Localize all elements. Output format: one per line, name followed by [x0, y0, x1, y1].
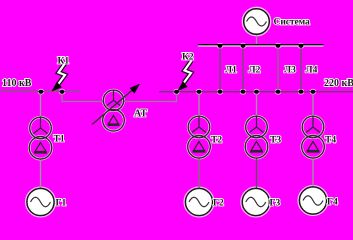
- svg-text:Т3: Т3: [270, 136, 281, 146]
- svg-text:Л4: Л4: [306, 66, 318, 76]
- svg-text:Система: Система: [274, 16, 311, 27]
- svg-text:220 кВ: 220 кВ: [324, 78, 353, 89]
- svg-text:К1: К1: [58, 57, 70, 67]
- svg-text:Т2: Т2: [211, 136, 222, 146]
- svg-text:К2: К2: [182, 53, 194, 63]
- svg-text:Т1: Т1: [54, 135, 65, 145]
- svg-text:Г4: Г4: [327, 198, 338, 208]
- svg-text:АТ: АТ: [134, 109, 147, 120]
- svg-text:Т4: Т4: [325, 136, 336, 146]
- svg-text:Г1: Г1: [56, 199, 67, 209]
- svg-text:Л1: Л1: [225, 66, 237, 76]
- svg-text:Г3: Г3: [270, 199, 281, 209]
- svg-text:Л2: Л2: [249, 66, 261, 76]
- svg-text:Л3: Л3: [284, 66, 296, 76]
- svg-text:Г2: Г2: [213, 199, 224, 209]
- svg-text:110 кВ: 110 кВ: [2, 78, 32, 89]
